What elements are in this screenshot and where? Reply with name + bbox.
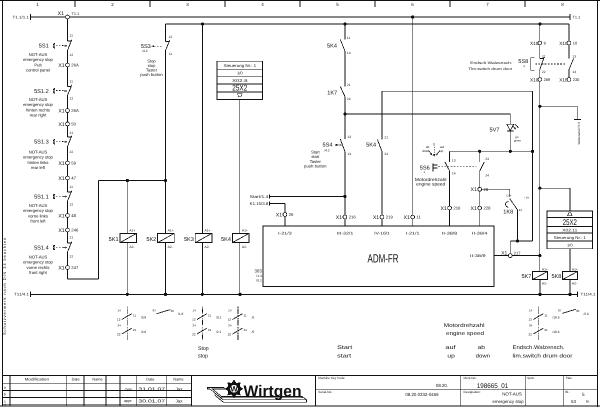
svg-text:1/0: 1/0 [567,243,573,248]
svg-text:X1: X1 [58,161,64,167]
svg-text:12: 12 [228,318,232,322]
emergency stop switch 5S1 [23,34,73,73]
signal reference Start/1.4 [250,194,345,199]
svg-text:II-38/8: II-38/8 [442,231,458,236]
wire 5K1 to bus [126,243,128,295]
wire X10:9 to 5S8 contact [539,45,541,59]
svg-text:stop: stop [198,354,208,360]
svg-text:X1: X1 [440,206,446,212]
selector switch 5S6 [415,163,477,186]
svg-text:14: 14 [228,309,232,313]
svg-text:34: 34 [529,323,533,327]
wire 5K8 to bus [569,280,571,295]
svg-text:10: 10 [573,41,578,46]
svg-text:5K4: 5K4 [221,237,231,243]
emergency stop switch 5S1.4 [23,236,73,276]
svg-text:11: 11 [208,314,211,318]
title block grid [3,375,598,406]
junction dot 5S6-2/rail [478,150,481,153]
svg-text:engine speed: engine speed [416,182,446,187]
svg-text:X1: X1 [58,213,64,219]
svg-text:3: 3 [186,2,189,7]
wire X1:228 to ADM-FR [479,210,481,226]
svg-text:Steuerung Nr.: 1: Steuerung Nr.: 1 [224,63,257,68]
svg-text:/1.8: /1.8 [178,312,184,316]
svg-text:11: 11 [244,314,247,318]
svg-text:1K7: 1K7 [327,91,337,97]
svg-text:14: 14 [347,51,351,55]
svg-text:9: 9 [544,41,546,46]
svg-text:X1: X1 [404,215,410,221]
svg-text:5: 5 [582,392,585,397]
svg-text:E1: E1 [519,209,523,212]
svg-text:Machine Key Code:: Machine Key Code: [318,376,345,380]
junction dot rail/5K2 [164,179,167,182]
svg-text:24: 24 [485,174,489,178]
approval row drawn [126,387,184,392]
svg-text:31.01.07: 31.01.07 [138,387,166,392]
wire Steuerung box to 5K4 coil [239,99,241,233]
svg-text:ADM-FR: ADM-FR [368,251,399,265]
svg-text:K1.15/3.8: K1.15/3.8 [250,201,269,206]
relay coil 5K8 [551,267,577,285]
wire bus T11/4.1 [31,292,578,298]
svg-text:A2-: A2- [129,245,134,249]
svg-text:21: 21 [133,328,137,332]
svg-text:Bl.:: Bl.: [565,390,570,394]
svg-text:246: 246 [71,228,79,233]
svg-text:/3.1: /3.1 [216,316,222,320]
wire riser x=532.5 [532,91,534,241]
terminal X1:247 [58,265,79,271]
terminal X1:26A [58,63,79,69]
svg-text:8: 8 [561,2,564,7]
svg-text:21: 21 [542,54,546,58]
connector box 25X2 lower [547,211,592,249]
junction dot X1:217/5K7 [538,254,541,257]
terminal X10:9 [530,41,546,46]
svg-text:21: 21 [70,131,74,135]
wire 25X2 box to 5K8 coil [569,249,571,272]
terminal X1:11 [404,215,422,221]
svg-text:brw.: brw. [126,387,133,391]
svg-text:26A: 26A [71,63,79,68]
svg-text:A1+: A1+ [542,267,548,271]
relay coil 5K7 [521,267,547,285]
svg-text:34: 34 [117,323,121,327]
svg-text:Walzenabd./T1.5: Walzenabd./T1.5 [577,122,581,145]
contact 5S6 13-14 [445,159,456,176]
svg-text:Jax: Jax [176,387,184,392]
revision row letters [4,386,6,407]
wire 5S4 to start node [344,152,346,197]
svg-text:control panel: control panel [26,68,50,73]
wire rail to 5S6 contact 2 [479,151,481,162]
wire K1.15 ref down to X1:26 [284,204,286,213]
wire rail y=180.5 [99,180,166,182]
contact mirror 5K4 [228,307,255,342]
svg-text:a: a [4,386,6,390]
svg-text:14: 14 [529,309,533,313]
terminal X1:219 [373,215,394,221]
wire X1:28 to 1K8 [482,189,510,197]
svg-text:X10: X10 [530,77,539,82]
wire rail y=91.2 [382,90,533,92]
svg-text:III-32/1: III-32/1 [337,231,354,236]
svg-text:X1: X1 [373,215,379,221]
svg-text:up: up [447,353,454,359]
svg-text:X1: X1 [58,265,64,271]
wire 5S1.1 to X1:48 [67,201,69,214]
contact 5S8 13-14 [569,54,576,74]
svg-text:Schutzvermerk nach DIN 34 beac: Schutzvermerk nach DIN 34 beachten [2,237,7,335]
junction dot rail/5K1 [126,179,129,182]
svg-text:down: down [476,353,490,359]
svg-text:A2-: A2- [542,281,547,285]
wire X1:47 to 5S1.1 [67,180,69,192]
svg-text:53: 53 [571,399,576,404]
label Motordrehzahl engine speed [444,323,485,337]
contact mirror 5K8 [558,309,589,316]
svg-text:push button: push button [140,72,163,77]
svg-text:6: 6 [411,2,414,7]
terminal X10:230 [559,77,580,82]
svg-text:30.01.07: 30.01.07 [138,398,166,403]
svg-text:34: 34 [193,323,197,327]
label Stop stop [198,346,209,360]
svg-text:A1+: A1+ [242,229,248,233]
svg-text:/5: /5 [252,330,255,334]
terminal X10:10 [559,41,578,46]
svg-text:I-21/1: I-21/1 [406,231,420,236]
wire 5S1.2 to X1:26A(2) [67,95,69,108]
terminal X1:26A second [58,108,79,114]
wire 5K4 to bus [239,243,241,295]
wire X1:59 to X1:47 [67,165,69,176]
svg-text:Motordrehzahl: Motordrehzahl [444,323,485,329]
svg-text:7: 7 [486,2,489,7]
svg-text:T1.1: T1.1 [573,14,581,19]
svg-text:Plan: Plan [566,376,572,380]
wire 5K4 contact 2 to X1:219 [381,152,383,216]
svg-text:X1: X1 [58,122,64,128]
svg-text:21: 21 [347,83,351,87]
wire bus T1.1 [31,14,571,20]
svg-text:12: 12 [70,202,74,206]
contact mirror 5K7 [529,307,560,342]
svg-text:30: 30 [171,309,175,313]
terminal X1:28 [471,187,489,193]
junction dot 1K8 node [516,239,519,242]
wire from X1 T1.1 down [67,19,69,41]
svg-text:5K7: 5K7 [521,274,531,280]
wire X1:219 to ADM-FR [381,219,383,226]
relay coil 5K3 [184,229,212,249]
svg-text:A1+: A1+ [205,229,211,233]
svg-text:26A: 26A [71,108,79,113]
wire 1K8 to node y=241 [517,210,519,241]
wire 5S1.4 to X1:247 [67,252,69,266]
wire to reference Walzenabd [540,106,581,119]
svg-text:25X2: 25X2 [563,218,577,227]
relay coil 5K4 [221,229,249,249]
svg-text:/4.2: /4.2 [324,148,330,152]
svg-text:down: down [422,149,430,153]
svg-text:08.20.: 08.20. [436,383,448,388]
svg-text:up: up [440,149,444,153]
svg-text:198665_01: 198665_01 [477,383,509,390]
junction dot 25X2 feed [538,187,541,190]
svg-text:289: 289 [544,77,551,82]
emergency stop switch 5S1.1 [23,185,73,224]
svg-text:14: 14 [117,309,121,313]
terminal X1:228 [471,206,492,212]
svg-text:* JN: * JN [524,196,529,199]
svg-text:T1.1: T1.1 [72,12,80,16]
svg-text:21: 21 [544,328,548,332]
svg-text:X1: X1 [471,206,477,212]
svg-text:Serial-No.:: Serial-No.: [318,390,333,394]
svg-text:X1: X1 [276,212,282,218]
terminal X1:50 [58,122,76,128]
svg-text:green: green [514,139,522,143]
svg-text:5K1: 5K1 [109,237,119,243]
wire X1:26A to 5S1.2 [67,67,69,87]
svg-text:/2.8: /2.8 [141,330,147,334]
wire bus2 down to X10:9 [539,24,541,41]
wire 5K4 contact to 1K7 contact [344,51,346,87]
svg-text:22: 22 [117,332,121,336]
svg-text:/5: /5 [252,316,255,320]
wire 5K2 to bus [165,243,167,295]
svg-text:Start: Start [337,345,353,351]
wire X1:247 down and right [68,269,99,279]
svg-text:22: 22 [542,70,546,74]
svg-text:A1+: A1+ [168,229,174,233]
svg-text:/1.3: /1.3 [256,274,262,278]
control unit box 25X2 Steuerung Nr.1 [217,61,263,99]
svg-text:2: 2 [111,2,114,7]
wire LED down to rail y=151.3 [509,131,511,151]
svg-text:5S1: 5S1 [39,43,49,49]
wire 1K7 contact to node [344,97,346,115]
svg-text:A2-: A2- [572,281,577,285]
svg-text:Jax: Jax [176,398,184,403]
svg-text:13: 13 [452,159,456,163]
svg-text:14: 14 [452,171,456,175]
wire X10:10 to 5S8 contact 2 [568,45,570,59]
contact 5S6 23-24 [480,157,489,178]
svg-text:/3.8: /3.8 [141,316,147,320]
terminal X10:289 [530,77,550,82]
text Endsch drum door [468,61,513,71]
svg-text:NOT-AUS: NOT-AUS [502,391,522,396]
label ab down [476,345,490,360]
contact mirror 5K3 [192,307,221,342]
approval row approved [124,398,183,403]
svg-text:13: 13 [572,54,576,58]
svg-text:21: 21 [244,328,248,332]
relay contact 1K7 21-24 [327,83,350,101]
selector position arrows ab/0/auf [422,142,444,157]
svg-text:50: 50 [71,122,76,127]
svg-text:5S1.2: 5S1.2 [34,89,49,95]
svg-text:Ident-No.:: Ident-No.: [464,376,478,380]
wire 5S8 to X10:289 [539,70,541,78]
wire bus2 down to 5S3 [165,24,167,42]
svg-text:11: 11 [70,79,74,83]
svg-text:303: 303 [254,268,262,273]
svg-text:Date: Date [146,378,154,382]
svg-text:87: 87 [153,309,157,313]
svg-text:5S1.4: 5S1.4 [34,246,49,252]
svg-text:12: 12 [70,97,74,101]
svg-text:5K3: 5K3 [184,237,194,243]
wire rail y=241 [510,241,532,254]
device tag 303 [254,268,262,282]
junction dot walz ref [538,105,541,108]
wire 5S6-2 to X1:28 [479,171,481,187]
emergency stop switch 5S1.2 [23,79,73,117]
controller ADM-FR box [263,226,494,286]
wire bus2 to 5K3 coil [201,24,203,233]
relay contact 5K4 11-14 [327,36,351,55]
wire bus 2 [166,23,570,25]
wire node down to 5S4 [344,114,346,139]
svg-text:lim.switch drum door: lim.switch drum door [513,353,573,359]
svg-text:216: 216 [349,215,357,220]
terminal X1:246 [58,228,79,234]
svg-text:X1: X1 [58,63,64,69]
title field machine key code [318,376,448,388]
title field serial no [318,390,439,397]
svg-text:/18.6: /18.6 [552,316,559,320]
svg-text:/18.6: /18.6 [552,330,559,334]
svg-text:Endsch.Walzensch.: Endsch.Walzensch. [513,345,565,351]
svg-text:A2-: A2- [205,245,210,249]
title field ident no [464,376,509,390]
title field designation [464,390,525,404]
svg-text:Steuerung Nr.: 1: Steuerung Nr.: 1 [554,235,587,240]
label Start start [337,345,353,360]
svg-text:1: 1 [36,2,39,7]
svg-text:A1+: A1+ [129,229,135,233]
svg-text:5K4: 5K4 [366,142,376,148]
wire 5S3 to 5K2 coil [165,51,167,233]
svg-text:II-38/9: II-38/9 [470,253,486,258]
svg-text:87: 87 [558,309,562,313]
junction dot rail/riser [531,150,534,153]
svg-text:X1: X1 [501,250,507,256]
junction dot node LED rail [343,112,346,115]
wire to 25X2 box top [540,188,570,211]
junction dot on bus T1.1 [411,15,414,18]
wire 5K7 to bus [539,280,541,295]
signal reference K1.15/3.8 [250,201,285,206]
svg-text:Endsch.Walzensch.: Endsch.Walzensch. [470,61,512,65]
svg-text:T11/4.1: T11/4.1 [14,292,29,297]
svg-text:22: 22 [228,332,232,336]
svg-text:X10: X10 [530,41,539,46]
svg-text:Designation:: Designation: [464,390,481,394]
svg-text:5K8: 5K8 [551,274,561,280]
svg-text:Start/1.4: Start/1.4 [250,194,270,199]
svg-text:front right: front right [29,270,48,275]
svg-text:12: 12 [192,318,196,322]
wire X1:246 to 5S1.4 [67,232,69,243]
relay contact 5K4 21-24 [366,136,388,156]
wire corner down to 5K4 contact 2 [381,91,383,139]
svg-text:11: 11 [417,215,422,220]
svg-text:11: 11 [70,185,74,189]
svg-text:II-38/4: II-38/4 [472,231,489,236]
svg-text:0: 0 [433,142,435,146]
wire 5S8-2 to X10:230 [568,70,570,78]
svg-text:/2.6: /2.6 [584,312,590,316]
contact mirror 5K1 [117,307,146,342]
svg-text:47: 47 [71,176,76,181]
svg-text:d: d [4,403,6,407]
column numbers [36,2,564,7]
svg-text:11: 11 [347,36,351,40]
svg-text:rear right: rear right [30,113,48,118]
svg-text:1K8: 1K8 [503,210,513,216]
terminal X1:59 [58,161,76,167]
svg-text:14: 14 [347,152,351,156]
wire 5S6-1 to X1:216b [449,171,451,206]
svg-text:21: 21 [208,328,212,332]
svg-text:X10: X10 [559,41,568,46]
wire X10:289 down to 5K7 [539,81,541,271]
svg-text:12: 12 [169,35,173,39]
svg-text:26: 26 [289,212,294,217]
svg-text:1/0: 1/0 [237,71,243,76]
svg-text:216: 216 [453,206,461,211]
wire 5S1 to X1:26A [67,51,69,64]
wire bus2 corner to X10:10 [568,24,570,41]
svg-text:.8: .8 [523,65,526,68]
wire 5K3 to bus [201,243,203,295]
svg-text:front left: front left [30,219,46,224]
svg-text:X1: X1 [58,109,64,115]
svg-text:24: 24 [347,97,351,101]
svg-text:start: start [337,353,352,359]
svg-text:217: 217 [514,251,521,256]
svg-text:appr.: appr. [124,399,132,403]
svg-text:23: 23 [485,157,489,161]
svg-text:A2-: A2- [242,245,247,249]
junction dot start node [343,195,346,198]
svg-text:push button: push button [304,164,327,169]
svg-text:X1: X1 [58,11,64,17]
terminal X1:216 drum [440,206,461,212]
terminal X1:26 [276,212,294,218]
svg-text:Stop: Stop [198,346,209,352]
timing relay contact 1K8 [503,195,529,216]
svg-text:/8.1: /8.1 [256,279,262,283]
svg-text:08.20.0332-0456: 08.20.0332-0456 [405,392,439,397]
svg-text:X10: X10 [559,77,568,82]
svg-text:5K4: 5K4 [327,44,337,50]
svg-text:engine speed: engine speed [446,331,484,337]
svg-text:ab: ab [478,345,485,351]
wire X1:26 to ADM-FR [284,216,286,226]
svg-text:230: 230 [573,77,580,82]
svg-text:emergency stop: emergency stop [492,399,524,404]
stop push button 5S3 [140,35,172,77]
wire X1:216 to ADM-FR [344,219,346,226]
wire rail y=151.3 [450,150,533,152]
